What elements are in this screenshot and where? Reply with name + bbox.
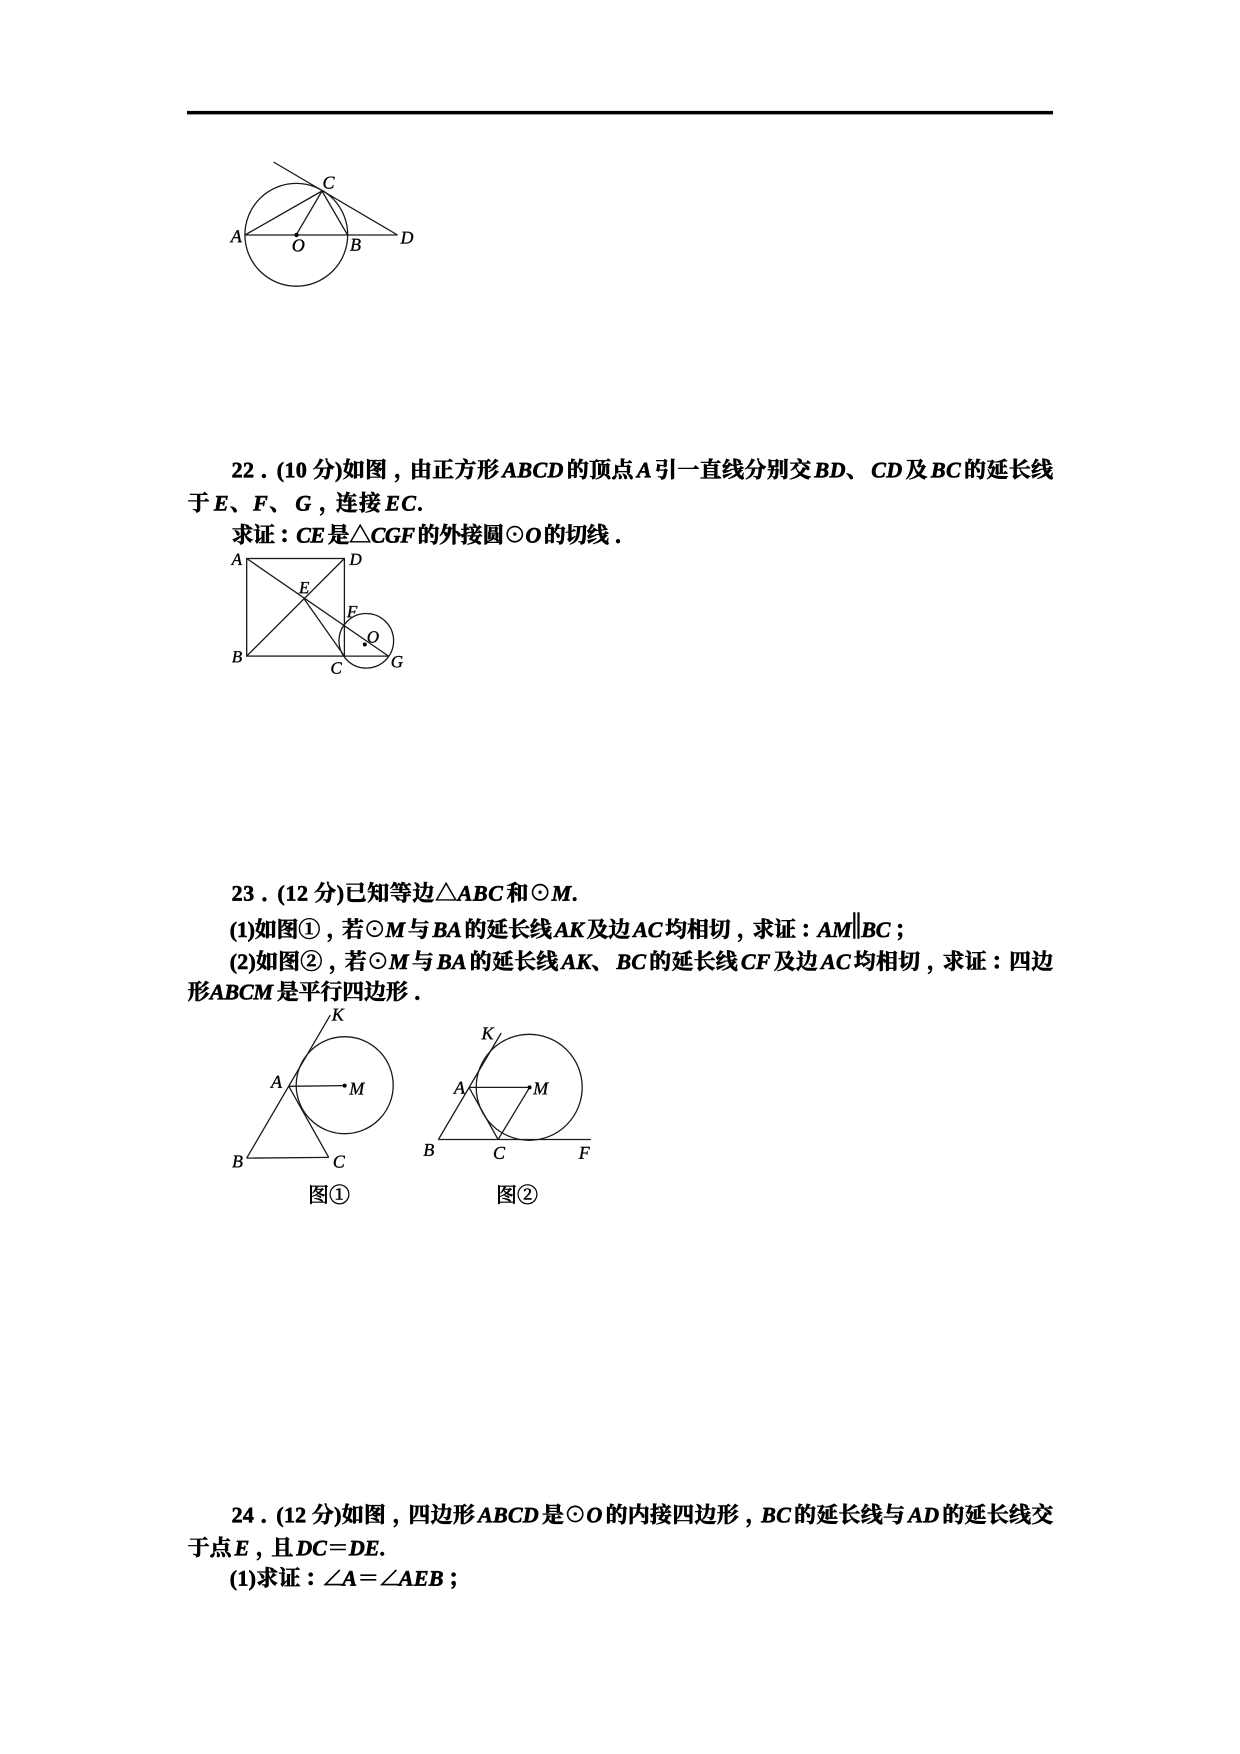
figure ②: circle M (476, 1034, 582, 1140)
figure ①: line B-K through A (247, 1015, 331, 1158)
text line: 于点E，且DC＝DE. (188, 1537, 384, 1561)
text line: fig② label F (579, 1147, 590, 1159)
figure ①: center dot M (343, 1084, 347, 1088)
text line: fig22 label O (368, 631, 379, 643)
text line: 于E、F、G，连接EC. (188, 492, 421, 516)
text line: 形ABCM是平行四边形． (188, 981, 419, 1002)
text line: fig21 label C (324, 177, 335, 189)
figure 22: segment E-C (304, 599, 344, 656)
text line: 23.(12分)已知等边△ABC和⊙M. (233, 882, 577, 906)
figure 21: tangent line through C to D (274, 162, 398, 235)
figure ①: circle M (296, 1037, 393, 1134)
text line: fig22 label C (331, 662, 342, 674)
figure 21: line A-B-D (diameter extended) (245, 234, 398, 236)
text line: caption 图① (310, 1185, 349, 1205)
text line: fig22 label D (349, 554, 361, 565)
figure ②: side A-C (469, 1087, 498, 1139)
text line: caption 图② (498, 1185, 537, 1205)
figure 22: square ABCD (247, 559, 345, 657)
figure 22: diagonal B-D (247, 559, 345, 657)
text line: fig22 label E (299, 582, 309, 593)
figure 21: center dot O (294, 233, 298, 237)
figure 21: chord B-C (322, 191, 348, 235)
text line: fig① label B (232, 1156, 242, 1168)
top rule (187, 111, 1053, 115)
figure ②: segment A-M (469, 1086, 530, 1088)
text line: 24.(12分)如图，四边形ABCD是⊙O的内接四边形，BC的延长线与AD的延长线交 (233, 1503, 1053, 1527)
text line: 22.(10分)如图，由正方形ABCD的顶点A引一直线分别交BD、CD及BC的延长线 (233, 458, 1053, 482)
text line: fig22 label G (392, 656, 403, 667)
text line: fig21 label A (230, 230, 242, 242)
figure ①: base B-C (247, 1156, 329, 1159)
text line: (2)如图②，若⊙M与BA的延长线AK、BC的延长线CF及边AC均相切，求证：四边 (231, 950, 1053, 974)
text line: fig② label B (424, 1144, 434, 1156)
figure 22: base extension C-G (344, 655, 388, 657)
text line: fig① label M (349, 1083, 365, 1095)
text line: (1)求证：∠A＝∠AEB； (231, 1567, 456, 1590)
text line: 求证：CE是△CGF的外接圆⊙O的切线． (233, 524, 620, 545)
figure 21: radius O-C (296, 191, 322, 235)
text line: fig② label K (481, 1028, 494, 1040)
figure ②: segment M-C (498, 1087, 529, 1139)
figure 22: center dot O (363, 643, 367, 647)
figure ①: segment A-M (289, 1085, 345, 1088)
text line: fig② label M (533, 1083, 549, 1095)
figure 22: circumcircle O of CGF (339, 614, 394, 669)
figure ②: base line B-C-F (438, 1139, 591, 1141)
text line: fig22 label F (347, 606, 358, 617)
text line: fig21 label B (350, 239, 360, 251)
text line: fig22 label B (232, 651, 242, 662)
figure 22: line A-G through E,F (247, 559, 389, 657)
figure 21: chord A-C (245, 191, 322, 235)
figure ②: center dot M (528, 1085, 532, 1089)
text line: fig① label C (334, 1156, 345, 1168)
text line: fig② label C (494, 1147, 505, 1159)
text line: fig① label A (270, 1076, 282, 1088)
text line: fig② label A (453, 1082, 465, 1094)
figure ①: side A-C (289, 1086, 329, 1157)
text line: fig21 label D (400, 232, 413, 244)
text line: fig22 label A (231, 554, 242, 565)
text line: fig① label K (332, 1009, 345, 1021)
text line: (1)如图①，若⊙M与BA的延长线AK及边AC均相切，求证：AM∥BC； (231, 913, 902, 942)
text line: fig21 label O (293, 239, 305, 251)
figure 21: circle O (245, 183, 348, 286)
figure ②: line B-K through A (438, 1033, 501, 1140)
